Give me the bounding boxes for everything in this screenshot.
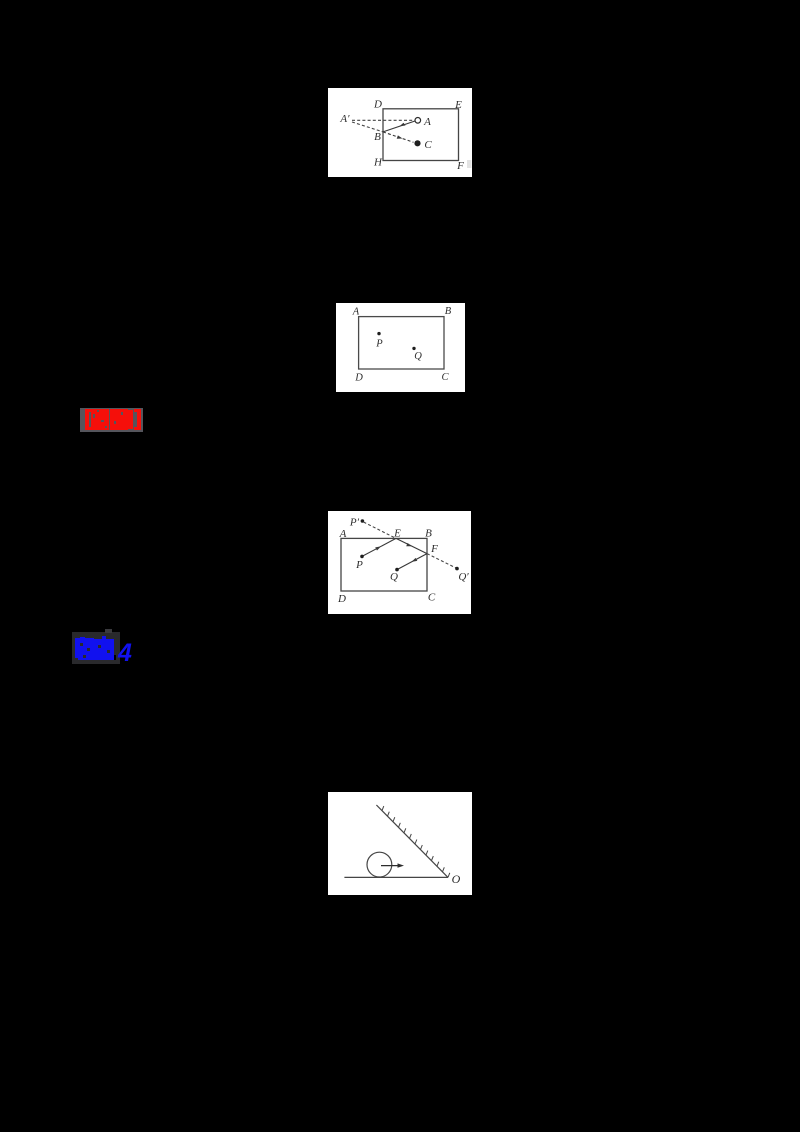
label A	[423, 116, 431, 128]
label F	[430, 543, 438, 555]
velocity arrow	[381, 863, 404, 867]
blue section heading 考点4	[72, 632, 120, 664]
solid ray E to F with arrow	[396, 538, 427, 553]
svg-text:F: F	[456, 160, 464, 172]
incline surface	[376, 805, 448, 877]
blue italic digit 4	[117, 639, 132, 667]
dashed ray F to Q'	[427, 554, 456, 568]
dashed ray A' to A	[352, 119, 414, 121]
figure 3: rectangle ABCD with mirrors, points P, Q, P', Q', E, F	[328, 511, 471, 614]
svg-text:P: P	[375, 339, 383, 350]
svg-text:Q: Q	[390, 571, 398, 583]
svg-text:H: H	[373, 157, 383, 169]
svg-text:F: F	[430, 543, 438, 555]
svg-text:C: C	[424, 139, 432, 151]
svg-text:E: E	[454, 99, 462, 111]
svg-text:Q: Q	[414, 351, 422, 362]
figure 2: rectangle ABCD with points P and Q	[336, 303, 465, 392]
svg-text:A: A	[352, 307, 360, 318]
svg-text:D: D	[337, 593, 346, 605]
svg-text:D: D	[373, 99, 382, 111]
figure 1: mirror box DEFH with points A, B, C, A'	[328, 88, 472, 177]
label A	[339, 528, 347, 540]
ball circle	[367, 852, 392, 877]
label C	[424, 139, 432, 151]
solid ray F to Q with arrow	[397, 554, 427, 570]
point P dot and label	[355, 555, 364, 571]
rectangle ABCD	[341, 538, 427, 591]
solid ray P to E with arrow	[362, 538, 396, 556]
label P	[375, 339, 383, 350]
label H	[373, 157, 383, 169]
dashed ray A' to B	[352, 122, 383, 132]
label F	[456, 160, 464, 172]
solid ray A to B with arrow	[383, 121, 415, 132]
label A	[352, 307, 360, 318]
point Q' dot and label	[455, 567, 469, 583]
blue CJK glyph block 考点	[75, 636, 116, 660]
label B	[425, 528, 432, 540]
label C	[441, 372, 449, 383]
figure 4: ball on ground before incline at O	[328, 792, 472, 895]
label Q	[414, 351, 422, 362]
svg-text:Q′: Q′	[458, 571, 469, 583]
point Q dot and label	[390, 568, 399, 583]
rectangle DEFH	[383, 109, 459, 161]
label O	[452, 872, 461, 886]
svg-text:P: P	[355, 559, 363, 571]
svg-text:O: O	[452, 872, 461, 886]
point P dot	[377, 332, 380, 335]
label C	[428, 592, 436, 604]
rectangle ABCD	[359, 317, 444, 369]
svg-text:A: A	[423, 116, 431, 128]
svg-text:E: E	[393, 528, 401, 540]
svg-text:C: C	[428, 592, 436, 604]
svg-text:D: D	[354, 373, 363, 384]
point C filled dot	[414, 140, 420, 146]
label D	[373, 99, 382, 111]
red highlighted answer text	[80, 408, 143, 432]
svg-text:B: B	[374, 131, 381, 143]
svg-text:P′: P′	[349, 517, 360, 529]
dashed ray B to C with arrow	[383, 132, 414, 142]
svg-text:A′: A′	[339, 113, 350, 125]
svg-text:B: B	[425, 528, 432, 540]
point B label	[374, 131, 381, 143]
gray artifact square	[467, 160, 472, 168]
dashed ray P' to E	[364, 522, 397, 538]
point Q dot	[412, 347, 415, 350]
red CJK glyph block 【答案】	[85, 409, 141, 430]
label A'	[339, 113, 350, 125]
label E	[454, 99, 462, 111]
svg-text:A: A	[339, 528, 347, 540]
label D	[354, 373, 363, 384]
svg-text:C: C	[441, 372, 449, 383]
point P' dot and label	[349, 517, 364, 529]
label B	[445, 306, 452, 317]
svg-text:B: B	[445, 306, 452, 317]
label E	[393, 528, 401, 540]
incline hatching	[382, 806, 450, 877]
ground line	[344, 876, 448, 878]
label D	[337, 593, 346, 605]
point A open circle	[415, 118, 421, 124]
svg-text:4: 4	[117, 639, 132, 664]
